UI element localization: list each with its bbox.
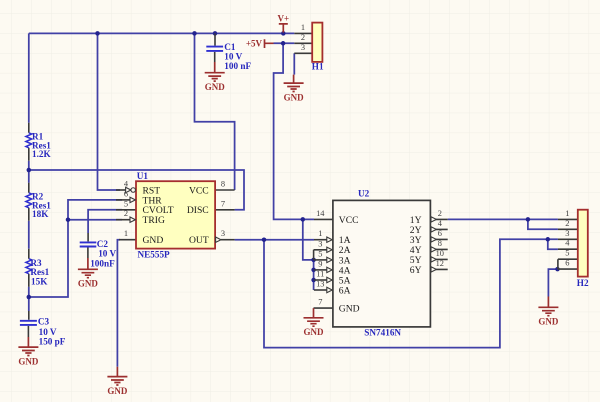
5Y output arrow bbox=[431, 257, 436, 262]
pin H2.4 line bbox=[558, 248, 578, 250]
svg-text:GND: GND bbox=[339, 304, 360, 315]
svg-text:10 V: 10 V bbox=[224, 52, 242, 62]
svg-text:GND: GND bbox=[143, 235, 164, 246]
svg-text:GND: GND bbox=[18, 356, 39, 366]
pin U2.6 3Y line bbox=[430, 238, 447, 240]
svg-text:GND: GND bbox=[538, 317, 559, 327]
svg-text:1: 1 bbox=[318, 229, 322, 238]
junction TRIG tee bbox=[66, 217, 71, 222]
wire branch to H2 pin2 bbox=[528, 219, 558, 229]
pin U2.14 VCC line bbox=[314, 218, 333, 220]
svg-text:15K: 15K bbox=[31, 277, 48, 287]
svg-text:2: 2 bbox=[124, 209, 128, 218]
ground under C2 bbox=[78, 258, 99, 289]
junction top rail / V+ bbox=[281, 31, 286, 36]
capacitor C2 bbox=[80, 233, 117, 269]
OUT output arrow bbox=[216, 237, 221, 242]
6Y output arrow bbox=[431, 267, 436, 272]
svg-text:7: 7 bbox=[221, 199, 225, 208]
pin H2.1 line bbox=[558, 218, 578, 220]
svg-text:100 nF: 100 nF bbox=[224, 61, 251, 71]
svg-text:13: 13 bbox=[316, 280, 324, 289]
pin U1.8 VCC line bbox=[215, 189, 235, 191]
3A input arrow bbox=[327, 257, 332, 262]
power V+ symbol bbox=[277, 14, 289, 33]
1Y output arrow bbox=[431, 217, 436, 222]
svg-text:7: 7 bbox=[318, 298, 322, 307]
junction OUT / H2 pin4 branch bbox=[546, 237, 551, 242]
4Y output arrow bbox=[431, 247, 436, 252]
pin H2.2 line bbox=[558, 228, 578, 230]
wire R2 to R3 segment bbox=[28, 221, 30, 249]
pin H1.3 line bbox=[294, 52, 312, 54]
junction R1/R2/DISC bbox=[27, 168, 32, 173]
svg-text:GND: GND bbox=[205, 82, 226, 92]
RST input arrow bbox=[126, 187, 131, 192]
resistor R2 bbox=[26, 183, 51, 221]
junction U2 VCC14 tee bbox=[301, 217, 306, 222]
wire branch to H2 pin4 bbox=[548, 239, 558, 249]
svg-text:GND: GND bbox=[107, 386, 128, 396]
svg-text:2: 2 bbox=[301, 33, 305, 42]
pin U2.12 6Y line bbox=[430, 268, 447, 270]
junction H2 pin6 bbox=[555, 267, 560, 272]
svg-text:8: 8 bbox=[438, 239, 442, 248]
svg-text:C1: C1 bbox=[224, 42, 236, 52]
header H2 bbox=[565, 209, 589, 288]
pin U1.6 THR line bbox=[116, 199, 130, 201]
svg-text:2: 2 bbox=[438, 209, 442, 218]
2A input arrow bbox=[327, 247, 332, 252]
pin U2.8 4Y line bbox=[430, 248, 447, 250]
pin U2.13 6A line bbox=[314, 289, 327, 291]
pin U2.11 5A line bbox=[314, 279, 327, 281]
wire top power rail bbox=[29, 32, 295, 34]
svg-text:U2: U2 bbox=[358, 189, 370, 199]
svg-text:U1: U1 bbox=[137, 171, 149, 181]
pin H1.1 line bbox=[294, 32, 312, 34]
svg-text:C3: C3 bbox=[38, 316, 50, 326]
ground under C3 bbox=[18, 337, 39, 366]
wire VCC8 net from top rail bbox=[195, 33, 235, 190]
5A input arrow bbox=[327, 277, 332, 282]
junction top rail / RST bbox=[95, 31, 100, 36]
svg-text:8: 8 bbox=[221, 180, 225, 189]
svg-text:TRIG: TRIG bbox=[143, 215, 165, 226]
svg-text:18K: 18K bbox=[32, 209, 49, 219]
wire H1 pin3 to GND bbox=[293, 53, 295, 74]
junction 1Y / H2 pin2 branch bbox=[526, 217, 531, 222]
svg-text:H2: H2 bbox=[577, 278, 589, 288]
pin U1.3 OUT line bbox=[221, 239, 235, 241]
svg-text:V+: V+ bbox=[277, 14, 289, 24]
wire OUT net to U2 1A bbox=[235, 239, 314, 241]
svg-text:11: 11 bbox=[316, 270, 324, 279]
wire R3 bottom to C3 bbox=[28, 287, 30, 311]
svg-text:6: 6 bbox=[438, 229, 442, 238]
svg-text:1: 1 bbox=[301, 23, 305, 32]
svg-text:OUT: OUT bbox=[189, 235, 209, 246]
junction U2 3A bbox=[311, 258, 316, 263]
svg-text:3: 3 bbox=[221, 229, 225, 238]
svg-text:14: 14 bbox=[316, 209, 325, 218]
TRIG input arrow bbox=[130, 217, 135, 222]
6A input arrow bbox=[327, 287, 332, 292]
svg-text:SN7416N: SN7416N bbox=[364, 328, 401, 338]
RST inversion bubble bbox=[131, 188, 136, 193]
svg-text:12: 12 bbox=[436, 259, 444, 268]
svg-text:3: 3 bbox=[318, 239, 322, 248]
THR input arrow bbox=[130, 197, 135, 202]
svg-text:NE555P: NE555P bbox=[138, 249, 171, 259]
pin H2.5 line + link down to pin6 bbox=[558, 259, 578, 269]
pin U2.10 5Y line bbox=[430, 258, 447, 260]
svg-text:GND: GND bbox=[304, 327, 325, 337]
svg-text:10 V: 10 V bbox=[39, 327, 57, 337]
inverter U2 SN7416N body bbox=[316, 189, 444, 338]
svg-text:5: 5 bbox=[318, 249, 322, 258]
ground under U1 GND bbox=[107, 367, 128, 396]
pin U2.2 1Y line bbox=[430, 218, 447, 220]
wire OUT long run to H2 pin3 bbox=[264, 239, 558, 347]
svg-text:GND: GND bbox=[78, 279, 99, 289]
header H1 bbox=[301, 23, 324, 72]
junction U2 4A bbox=[311, 268, 316, 273]
ground under H1 pin3 bbox=[284, 75, 305, 103]
svg-text:5: 5 bbox=[124, 199, 128, 208]
junction top rail / C1 bbox=[213, 31, 218, 36]
wire +5V to H1 pin2 bbox=[274, 42, 295, 44]
wire R1 to R2 segment bbox=[28, 161, 30, 183]
capacitor C3 bbox=[20, 311, 66, 347]
wire +5V rail down to U2 VCC14 bbox=[274, 43, 314, 219]
resistor R3 bbox=[26, 249, 50, 287]
pin H2.6 line bbox=[558, 268, 578, 270]
svg-text:VCC: VCC bbox=[189, 185, 209, 196]
4A input arrow bbox=[327, 267, 332, 272]
wire U2 1Y to H2 pin1 bbox=[448, 218, 558, 220]
junction OUT tee bbox=[262, 237, 267, 242]
svg-text:1: 1 bbox=[124, 229, 128, 238]
1A input arrow bbox=[327, 237, 332, 242]
junction top rail / VCC8 bbox=[192, 31, 197, 36]
svg-text:10: 10 bbox=[436, 249, 444, 258]
svg-text:DISC: DISC bbox=[187, 205, 209, 216]
3Y output arrow bbox=[431, 237, 436, 242]
svg-text:GND: GND bbox=[284, 92, 305, 102]
pin U1.1 GND line bbox=[119, 239, 137, 241]
wire RST net from top rail bbox=[98, 33, 121, 190]
svg-text:VCC: VCC bbox=[339, 215, 359, 226]
pin U2.4 2Y line bbox=[430, 228, 447, 230]
svg-text:9: 9 bbox=[318, 259, 322, 268]
wire TRIG net bbox=[68, 219, 122, 221]
pin U2.3 2A line + link down bbox=[314, 250, 327, 260]
wire THR net: R3/C3 junction up to U1 THR bbox=[29, 200, 122, 297]
junction R3/C3/THR bbox=[27, 295, 32, 300]
ground under U2 GND bbox=[304, 308, 325, 337]
svg-text:2: 2 bbox=[565, 219, 569, 228]
wire U1 GND pin down bbox=[117, 240, 120, 367]
svg-text:3: 3 bbox=[565, 229, 569, 238]
wire +5V branch down to U2 3A bbox=[303, 219, 314, 260]
svg-text:1: 1 bbox=[565, 209, 569, 218]
wire H2 pin6 to GND bbox=[548, 269, 558, 296]
pin U2.1 1A line bbox=[314, 239, 327, 241]
pin U1.2 TRIG line bbox=[116, 219, 130, 221]
svg-text:100nF: 100nF bbox=[90, 259, 115, 269]
power +5V symbol bbox=[246, 39, 274, 49]
pin U2.5 3A line bbox=[314, 259, 327, 261]
svg-text:+5V: +5V bbox=[246, 39, 263, 49]
2Y output arrow bbox=[431, 227, 436, 232]
svg-text:6: 6 bbox=[565, 259, 569, 268]
wire DISC net: R1/R2 junction to U1 pin7 bbox=[29, 170, 244, 210]
pin H1.2 line bbox=[294, 42, 312, 44]
svg-text:10 V: 10 V bbox=[98, 248, 116, 258]
svg-text:5: 5 bbox=[565, 249, 569, 258]
junction U2 5A bbox=[311, 278, 316, 283]
ground under H2 bbox=[538, 297, 559, 327]
capacitor C1 bbox=[206, 33, 251, 71]
svg-text:6A: 6A bbox=[339, 285, 351, 296]
pin U2.9 4A line bbox=[314, 269, 327, 271]
resistor R1 bbox=[26, 123, 52, 161]
pin U1.5 CVOLT line bbox=[116, 209, 136, 211]
junction +5V / H1 pin2 bbox=[281, 41, 286, 46]
pin H2.3 line bbox=[558, 238, 578, 240]
svg-text:150 pF: 150 pF bbox=[39, 337, 66, 347]
pin U1.7 DISC line bbox=[215, 209, 235, 211]
svg-text:1.2K: 1.2K bbox=[32, 149, 51, 159]
wire U2 input chain 3A-6A bbox=[313, 260, 315, 290]
pin U1.4 RST line bbox=[116, 189, 126, 191]
op-amp/timer U1 NE555P body bbox=[124, 171, 225, 259]
svg-text:3: 3 bbox=[301, 43, 305, 52]
svg-text:H1: H1 bbox=[312, 61, 324, 71]
pin U2.7 GND line bbox=[314, 307, 333, 309]
svg-text:6Y: 6Y bbox=[410, 265, 422, 276]
ground under C1 bbox=[205, 62, 226, 92]
wire CVOLT to C2 bbox=[88, 210, 122, 233]
wire left rail top segment bbox=[28, 33, 30, 122]
